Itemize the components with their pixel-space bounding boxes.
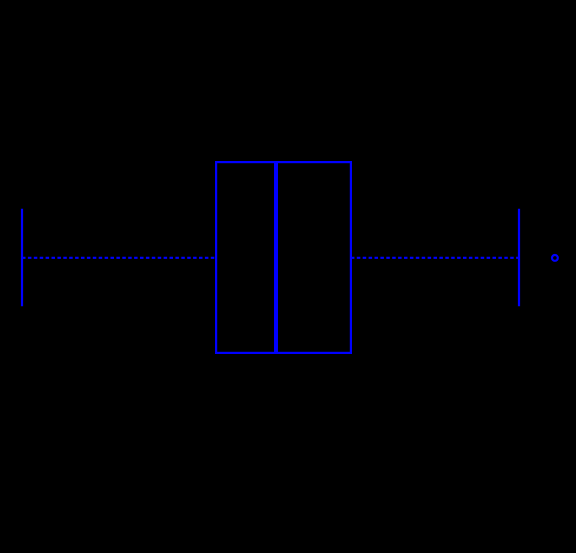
median line xyxy=(274,161,278,354)
outlier point xyxy=(552,255,558,261)
right whisker cap xyxy=(518,209,520,306)
box xyxy=(216,162,351,353)
left whisker dashed line xyxy=(22,257,216,259)
left whisker cap xyxy=(21,209,23,306)
right whisker dashed line xyxy=(351,257,519,259)
